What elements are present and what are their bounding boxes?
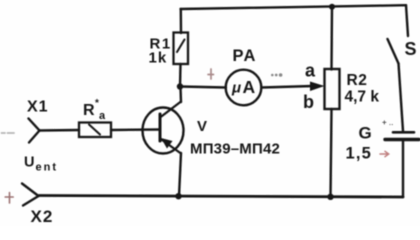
wire: collector to junction [179,88,182,102]
annotation dots [271,73,282,77]
terminal X1 [29,119,40,143]
wire: bottom rail [39,196,403,198]
wire: junction to meter PA [180,87,226,88]
wire: R2 column top [330,7,333,70]
svg-text:1k: 1k [149,50,168,67]
switch S blade [388,39,399,64]
svg-text:μ: μ [231,80,241,97]
svg-text:U: U [24,155,34,171]
terminal X2 [22,184,39,206]
resistor Ra [79,123,111,138]
wire: R2 bottom to bottom rail [331,109,332,197]
svg-text:МП39–МП42: МП39–МП42 [190,141,280,158]
svg-text:V: V [197,118,207,135]
wire: meter to R2 wiper arrow [262,86,314,88]
svg-text:X1: X1 [27,99,49,116]
meter PA [226,70,262,106]
svg-text:+ ..: + .. [382,118,393,127]
svg-text:X2: X2 [31,207,54,226]
resistor R2 [325,69,340,109]
svg-text:*: * [95,98,99,109]
battery G plate short [393,131,414,134]
svg-text:R2: R2 [347,72,368,89]
annotation plus mark [208,69,214,79]
svg-text:G: G [359,124,372,143]
svg-text:ent: ent [36,162,59,174]
svg-text:R: R [83,102,95,119]
svg-text:a: a [305,61,316,81]
svg-text:a: a [99,110,106,122]
wire: R1 column top [180,9,183,33]
wire: emitter to bottom rail [179,153,181,196]
svg-text:b: b [303,92,314,112]
node junction top rail / R2 [329,4,335,10]
resistor R1 [174,33,189,65]
label Uent [24,155,58,174]
svg-text:A: A [243,77,256,97]
wire: R1 bottom to junction [179,64,182,87]
node junction emitter/bottom rail [175,193,181,199]
annotation red dagger [5,193,13,204]
svg-text:1,5: 1,5 [346,145,373,163]
wire: switch to battery [399,64,404,132]
wire: Ra to transistor base [111,128,159,131]
annotation left dash [2,132,15,134]
wire: X1 to Ra [40,129,80,132]
battery G plate long [385,138,419,141]
wire: battery to bottom rail [402,141,404,197]
svg-text:PA: PA [233,47,257,65]
node junction R2/bottom rail [327,194,333,200]
label Ra [83,98,106,122]
svg-text:S: S [405,39,417,59]
node junction R1/collector/meter [177,83,183,89]
wiper arrowhead at R2 [310,82,325,92]
wire: right column top corner [406,5,408,36]
wire: top rail [181,5,407,9]
transistor V [143,102,184,154]
annotation red arrow [380,151,389,156]
svg-text:4,7 k: 4,7 k [345,89,380,106]
